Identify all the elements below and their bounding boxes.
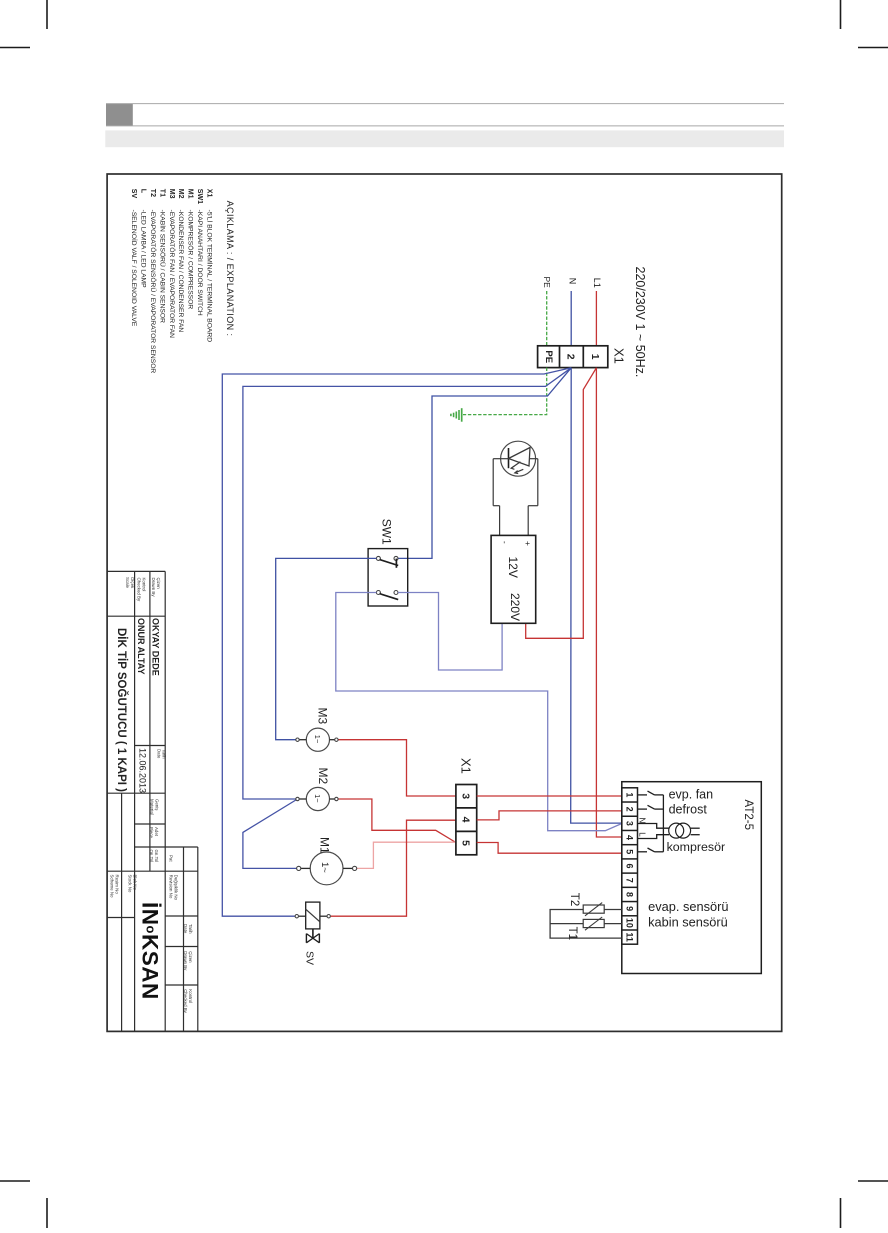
AT2-5 contact bus (662, 795, 664, 852)
AT2-5 relay contact 5 (kompresor) (638, 848, 664, 852)
label evap. sensoru (648, 899, 728, 914)
terminal block X1 (PE 2 1) (538, 346, 608, 368)
svg-text:1: 1 (625, 792, 635, 797)
wire M1 to X1 terminal 5 (pink) (357, 842, 456, 868)
legend line SV (130, 189, 139, 327)
wire L1 drop to AT2-5 terminal 4 (596, 368, 621, 837)
crop mark top-right (841, 0, 888, 48)
svg-text:Pat: Pat (169, 855, 174, 862)
motor M3 (296, 728, 335, 751)
svg-text:Drawn By: Drawn By (183, 951, 188, 971)
label 220/230V 1 ~ 50Hz (633, 267, 647, 378)
node L1 label (592, 278, 602, 288)
header bar with gray square (106, 104, 784, 126)
svg-text:N: N (568, 278, 578, 285)
svg-text:X1: X1 (612, 348, 627, 364)
solenoid valve SV coil (295, 902, 330, 929)
svg-text:12.06.2013: 12.06.2013 (138, 748, 148, 793)
svg-text:1~: 1~ (313, 794, 322, 803)
title block small labels (125, 577, 135, 589)
svg-text:N: N (638, 818, 647, 824)
M3 right pin (335, 738, 338, 741)
svg-text:3: 3 (460, 793, 472, 799)
crop mark bottom-right (841, 1181, 888, 1228)
wire M3 to X1 terminal 3 (338, 740, 456, 796)
svg-text:-EVAPORATÖR SENSÖRÜ / EVAPORAT: -EVAPORATÖR SENSÖRÜ / EVAPORATOR SENSOR (149, 210, 157, 374)
svg-text:M3: M3 (316, 708, 330, 725)
wire X1.4 to AT2-5 terminal 2 (477, 811, 622, 820)
svg-text:-LED LAMBA / LED LAMP: -LED LAMBA / LED LAMP (140, 210, 147, 289)
svg-text:kabin sensörü: kabin sensörü (648, 915, 728, 930)
svg-text:-SELENOİD VALF / SOLENOID VALV: -SELENOİD VALF / SOLENOID VALVE (130, 210, 139, 327)
svg-text:L1: L1 (592, 278, 602, 288)
label SW1 (380, 519, 394, 545)
svg-text:X1: X1 (459, 758, 474, 774)
svg-text:İNoKSAN: İNoKSAN (138, 902, 163, 1000)
svg-text:+: + (523, 541, 533, 546)
svg-text:Scale: Scale (125, 577, 130, 589)
terminal block X1 (3 4 5) (456, 785, 477, 855)
svg-text:Revision No: Revision No (169, 875, 174, 899)
wire N fan to SV (left outer) (222, 368, 571, 916)
svg-text:evp. fan: evp. fan (669, 788, 714, 802)
svg-text:220/230V 1 ~ 50Hz.: 220/230V 1 ~ 50Hz. (633, 267, 647, 378)
svg-text:Checked By: Checked By (137, 578, 142, 602)
svg-text:2: 2 (565, 354, 577, 360)
motor M2 (296, 787, 335, 810)
svg-text:L: L (140, 189, 147, 194)
svg-text:12V: 12V (506, 557, 520, 578)
wire PE below X1 (dashed green) (463, 368, 547, 415)
wire X1.3 to AT2-5 terminal 1 (477, 795, 622, 797)
svg-text:L: L (638, 832, 647, 837)
wire M2 to X1 terminal 5 (338, 799, 456, 843)
wire L1 branch to adapter 220V (526, 368, 597, 639)
svg-text:Stock No: Stock No (128, 875, 133, 893)
svg-text:Date: Date (157, 749, 162, 759)
ground symbol (451, 408, 462, 422)
label T1 (566, 927, 578, 940)
svg-text:On.Tol: On.Tol (149, 850, 154, 863)
svg-text:Material: Material (150, 799, 155, 815)
svg-text:3: 3 (625, 821, 635, 826)
svg-text:SV: SV (130, 189, 137, 199)
transformer symbol (638, 823, 700, 838)
thermistor T1 (583, 917, 604, 930)
legend line L (140, 189, 147, 288)
wire L1 supply drop (595, 291, 597, 346)
drawing frame border (107, 174, 782, 1031)
wire N drop to AT2-5 terminal 3 (571, 368, 622, 823)
svg-text:PE: PE (543, 350, 554, 363)
crop mark top-left (0, 0, 47, 48)
wire T1 to terminal 10 (550, 923, 622, 925)
INOKSAN logo (138, 902, 163, 1000)
SW1 contact pole 2 (376, 591, 398, 600)
label L at terminal 4 (638, 832, 647, 837)
legend line X1 (205, 189, 214, 342)
M1 right pin (353, 866, 357, 870)
svg-text:10: 10 (625, 918, 635, 928)
svg-text:OKYAY DEDE: OKYAY DEDE (151, 618, 161, 676)
svg-text:-EVAPORATÖR FAN / EVAPORATOR F: -EVAPORATÖR FAN / EVAPORATOR FAN (168, 210, 176, 338)
label evp. fan (669, 788, 714, 802)
svg-text:2: 2 (625, 807, 635, 812)
svg-text:-5'Lİ BLOK TERMİNAL / TERMİNAL: -5'Lİ BLOK TERMİNAL / TERMİNAL BOARD (205, 210, 214, 343)
svg-text:-: - (500, 541, 509, 544)
label defrost (669, 803, 708, 817)
power adapter 12V/220V box (491, 535, 536, 623)
svg-text:M3: M3 (168, 189, 175, 199)
svg-text:1~: 1~ (313, 735, 322, 744)
thermistor T2 (583, 903, 604, 916)
svg-text:1~: 1~ (319, 862, 330, 873)
title text DIK TIP SOGUTUCU (115, 628, 128, 792)
label kompresor (667, 840, 726, 854)
svg-text:ONUR ALTAY: ONUR ALTAY (136, 618, 146, 675)
node N label (568, 278, 578, 285)
svg-text:SW1: SW1 (380, 519, 394, 545)
svg-text:T2: T2 (568, 893, 580, 906)
svg-text:AT2-5: AT2-5 (742, 800, 754, 830)
svg-text:T1: T1 (158, 189, 165, 197)
label AT2-5 (742, 800, 754, 830)
label N at terminal 3 (638, 818, 647, 824)
SV valve body (306, 929, 319, 943)
SW1 contact pole 1 (376, 556, 398, 567)
wire SV to X1 terminal 4 (331, 820, 456, 916)
svg-text:11: 11 (625, 932, 635, 942)
svg-text:AÇIKLAMA : / EXPLANATION :: AÇIKLAMA : / EXPLANATION : (225, 201, 235, 337)
svg-text:Scheme No: Scheme No (110, 875, 115, 898)
svg-text:-KOMPRESÖR / COMPRESSOR: -KOMPRESÖR / COMPRESSOR (187, 210, 195, 310)
svg-text:220V: 220V (508, 593, 522, 621)
legend line M1 (187, 189, 195, 310)
label X1 (lower terminal) (459, 758, 474, 774)
svg-text:9: 9 (625, 906, 635, 911)
wire T2 to terminal 9 and common to 11 (550, 910, 622, 939)
svg-text:Drawn By: Drawn By (151, 578, 156, 598)
svg-text:SW1: SW1 (196, 189, 203, 204)
svg-text:X1: X1 (205, 189, 212, 198)
wire X1.5 to AT2-5 terminal 5 (477, 843, 622, 854)
wire SW1 pole1 to M3 (276, 558, 377, 739)
svg-text:M2: M2 (177, 189, 184, 199)
wire N fan to SW1 (398, 368, 571, 559)
checked by ONUR ALTAY (136, 618, 146, 675)
wire N fan to M2/M1 chain (243, 368, 571, 799)
legend line T2 (149, 189, 157, 374)
svg-text:DİK TİP SOĞUTUCU ( 1 KAPI ): DİK TİP SOĞUTUCU ( 1 KAPI ) (115, 628, 128, 792)
lamp body outline (493, 459, 538, 536)
svg-text:1: 1 (589, 354, 601, 360)
AT2-5 relay contact 1 (evp. fan) (638, 791, 664, 795)
svg-text:SV: SV (304, 951, 316, 965)
controller AT2-5 box (622, 782, 762, 974)
wire N supply drop (570, 291, 572, 346)
wire SW1 pole2 to AT2-5 terminal 3 (336, 593, 622, 831)
svg-text:M2: M2 (316, 768, 330, 785)
LED diode symbol (509, 448, 531, 474)
label T2 (568, 893, 580, 906)
date 12.06.2013 (138, 748, 148, 793)
label SV (304, 951, 316, 965)
legend line M2 (177, 189, 184, 333)
drawn by OKYAY DEDE (151, 618, 161, 676)
legend line SW1 (196, 189, 203, 316)
light gray toolbar strip (105, 130, 784, 147)
label M1 (318, 837, 332, 854)
svg-text:6: 6 (625, 864, 635, 869)
svg-text:-KONDENSER FAN / CONDENSER FAN: -KONDENSER FAN / CONDENSER FAN (177, 210, 184, 333)
svg-text:T2: T2 (149, 189, 156, 197)
svg-text:Piece: Piece (149, 827, 154, 839)
label kabin sensoru (648, 915, 728, 930)
legend line M3 (168, 189, 176, 338)
svg-text:Date: Date (183, 924, 188, 934)
wire PE supply drop (dashed green) (546, 291, 548, 346)
legend line T1 (158, 189, 167, 323)
label M3 (316, 708, 330, 725)
svg-text:PE: PE (542, 277, 552, 289)
AT2-5 terminal strip 1-11 (622, 788, 638, 944)
svg-text:-KAPI ANAHTARI / DOOR SWITCH: -KAPI ANAHTARI / DOOR SWITCH (196, 210, 203, 316)
crop mark bottom-left (0, 1181, 47, 1228)
svg-text:5: 5 (625, 849, 635, 854)
svg-text:5: 5 (460, 840, 472, 846)
legend heading ACIKLAMA / EXPLANATION (225, 201, 235, 337)
svg-text:7: 7 (625, 878, 635, 883)
svg-text:4: 4 (625, 835, 635, 840)
svg-text:M1: M1 (187, 189, 194, 199)
svg-text:defrost: defrost (669, 803, 708, 817)
svg-text:evap. sensörü: evap. sensörü (648, 899, 728, 914)
svg-text:kompresör: kompresör (667, 840, 726, 854)
M2 right pin (335, 797, 338, 800)
svg-text:8: 8 (625, 892, 635, 897)
wire SW1 pole2 to adapter 220V (398, 593, 502, 671)
svg-text:-KABİN SENSÖRÜ / CABIN SENSOR: -KABİN SENSÖRÜ / CABIN SENSOR (158, 210, 167, 324)
LED lamp L circle (501, 441, 536, 476)
AT2-5 relay contact 2 (defrost) (638, 805, 664, 809)
svg-text:Checked By: Checked By (183, 989, 188, 1013)
switch SW1 box (368, 549, 408, 606)
title block grid (107, 571, 198, 1031)
node PE label (542, 277, 552, 289)
label X1 (top terminal) (612, 348, 627, 364)
wire M2 to M1 link (243, 799, 298, 868)
label M2 (316, 768, 330, 785)
svg-text:M1: M1 (318, 837, 332, 854)
motor M1 (297, 852, 353, 885)
svg-text:4: 4 (460, 817, 472, 823)
